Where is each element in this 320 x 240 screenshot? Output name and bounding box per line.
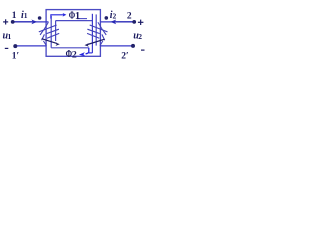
right winding back connector 2	[102, 34, 105, 40]
label + (top-right)	[138, 21, 144, 23]
label minus (bottom-left)	[5, 47, 9, 49]
core window right vertical	[91, 14, 93, 53]
transformer core outer rectangle	[46, 10, 100, 57]
left winding end arrow (dark)	[42, 39, 57, 44]
current arrow i2 (dark, pointing left)	[115, 21, 134, 23]
core window top edge	[56, 20, 93, 22]
wire bottom-right	[100, 45, 133, 47]
wire bottom-left	[15, 45, 46, 47]
right winding turn 3 inner	[87, 33, 99, 38]
label phi1	[69, 10, 76, 21]
terminal dot 1' (bottom-left)	[13, 44, 17, 48]
svg-text:1: 1	[8, 32, 12, 41]
right winding turn 2 inner	[87, 29, 99, 33]
svg-text:2: 2	[127, 12, 132, 22]
polarity dot right winding	[105, 16, 109, 20]
svg-text:2: 2	[72, 49, 77, 60]
label phi2	[66, 48, 73, 59]
left winding exit connector	[43, 41, 46, 46]
terminal dot 1 (top-left)	[11, 20, 15, 24]
left winding back connector 2	[42, 34, 45, 40]
flux path right vertical	[95, 14, 97, 45]
svg-text:1′: 1′	[12, 52, 20, 62]
terminal dot 2' (bottom-right)	[131, 44, 135, 48]
right winding turn 1	[90, 25, 108, 32]
flux path left vertical	[50, 16, 52, 48]
polarity dot left winding	[38, 16, 42, 20]
wire top-left	[13, 21, 49, 23]
svg-text:1: 1	[24, 11, 28, 20]
flux arrow phi1 (top, pointing right)	[51, 15, 64, 19]
svg-text:1: 1	[12, 11, 17, 21]
right winding back connector 1	[103, 30, 107, 35]
right winding entry connector	[98, 22, 103, 29]
left winding entry connector	[44, 22, 49, 29]
svg-text:2: 2	[113, 11, 117, 20]
svg-text:2′: 2′	[121, 52, 129, 62]
core window left vertical	[55, 21, 57, 41]
flux arrow phi2 (bottom, hooked, pointing left)	[89, 52, 93, 54]
flux loop inner top segment	[77, 18, 87, 20]
label minus (bottom-right)	[141, 49, 145, 51]
left winding turn 2 inner	[47, 29, 59, 33]
flux path bottom line	[51, 47, 89, 49]
right winding end arrow (dark)	[88, 39, 105, 44]
svg-text:2: 2	[138, 32, 142, 41]
svg-text:1: 1	[75, 11, 80, 22]
left winding turn 1	[39, 25, 57, 32]
terminal dot 2 (top-right)	[132, 20, 136, 24]
left winding turn 3 inner	[47, 33, 59, 38]
label + (top-left)	[3, 21, 8, 23]
right winding exit connector	[100, 41, 103, 46]
wire top-right	[100, 21, 134, 23]
current arrow i1 (dark, pointing right)	[13, 21, 33, 23]
left winding back connector 1	[40, 30, 44, 35]
